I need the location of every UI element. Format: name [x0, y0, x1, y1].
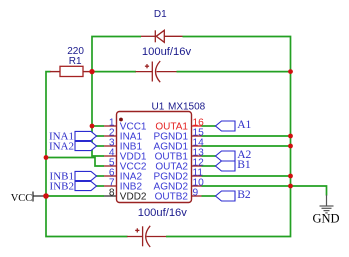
svg-text:100uf/16v: 100uf/16v: [138, 207, 188, 219]
svg-text:INA2: INA2: [49, 140, 74, 152]
svg-text:B1: B1: [237, 158, 251, 171]
svg-text:MX1508: MX1508: [168, 101, 206, 112]
svg-text:B2: B2: [237, 188, 251, 201]
svg-text:9: 9: [193, 188, 199, 199]
svg-text:VCC: VCC: [11, 193, 33, 204]
svg-text:R1: R1: [69, 56, 82, 67]
svg-text:VDD2: VDD2: [120, 192, 147, 203]
svg-text:D1: D1: [154, 9, 167, 20]
svg-text:8: 8: [109, 188, 115, 199]
svg-text:GND: GND: [312, 212, 339, 226]
svg-text:OUTB2: OUTB2: [155, 192, 189, 203]
svg-text:INB2: INB2: [50, 180, 74, 192]
svg-text:U1: U1: [152, 101, 165, 112]
svg-text:A1: A1: [237, 118, 251, 131]
svg-text:100uf/16v: 100uf/16v: [142, 46, 192, 58]
